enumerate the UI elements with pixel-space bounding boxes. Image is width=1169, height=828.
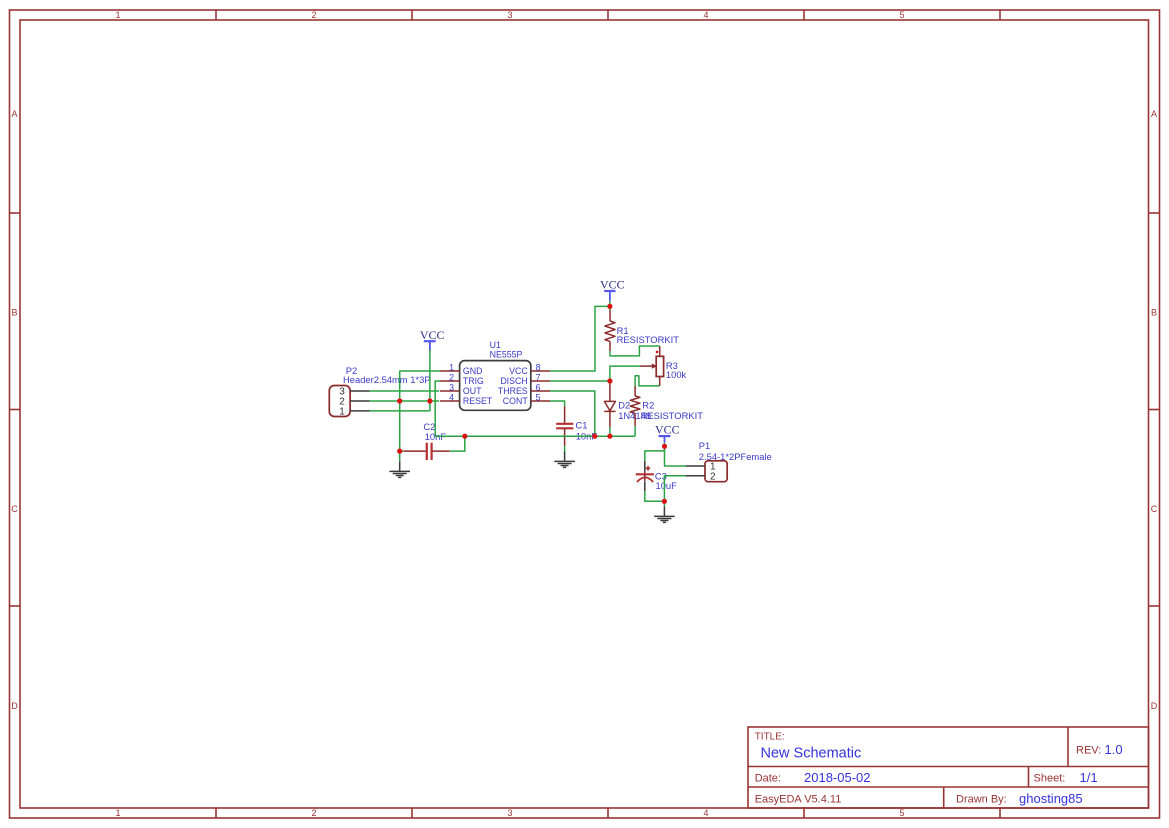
U1 pin 3 OUT (440, 390, 460, 392)
P2 pin 3 (350, 390, 370, 392)
svg-text:4: 4 (703, 10, 708, 20)
U1 pin 6 THRES (531, 390, 550, 392)
svg-text:B: B (11, 308, 17, 318)
connector P2 Header2.54mm 1*3P (329, 365, 430, 417)
svg-text:2: 2 (710, 471, 716, 482)
diode D2 1N4148 (604, 384, 651, 428)
wire P2.1 row (370, 410, 430, 412)
svg-text:RESISTORKIT: RESISTORKIT (617, 334, 680, 345)
svg-text:B: B (1151, 308, 1157, 318)
wire R3 bottom to R2 top (635, 376, 660, 386)
svg-text:4: 4 (449, 392, 454, 402)
junction C3 bottom / P1.2 / ground (662, 499, 667, 504)
wire U1.5 to C1 (550, 401, 565, 406)
svg-text:5: 5 (899, 10, 904, 20)
svg-text:THRES: THRES (498, 386, 528, 396)
svg-text:A: A (1151, 109, 1157, 119)
junction VCC3 (662, 444, 667, 449)
junction DISCH/D2/R3 (607, 378, 612, 383)
svg-text:GND: GND (463, 366, 483, 376)
wire U1.8 to VCC1 (550, 306, 610, 371)
svg-text:VCC: VCC (655, 422, 680, 436)
svg-text:100k: 100k (666, 369, 687, 380)
svg-text:1: 1 (115, 10, 120, 20)
svg-text:D: D (1151, 701, 1158, 711)
ground 2 (below C1) (554, 452, 575, 468)
IC U1 NE555P 555 timer (440, 340, 550, 410)
wire P2.3 to U1.OUT (370, 390, 439, 392)
wire VCC3 to C3 top (645, 446, 665, 461)
U1 pin 8 VCC (531, 370, 550, 372)
svg-text:D2: D2 (618, 399, 630, 410)
wire TRIG vertical B (435, 381, 440, 436)
junction bus / THRES (592, 434, 597, 439)
ground 3 (below C3) (654, 506, 675, 522)
wire VCC3 stem (664, 443, 666, 447)
wire VCC2 vertical A (429, 350, 431, 411)
svg-text:8: 8 (536, 362, 541, 372)
svg-text:Date:: Date: (755, 773, 781, 785)
junction RESET row x VCC A (427, 398, 432, 403)
wire C3 bottom to junction (645, 491, 665, 501)
svg-text:OUT: OUT (463, 386, 482, 396)
resistor R1 RESISTORKIT (605, 310, 679, 351)
svg-text:1: 1 (115, 808, 120, 818)
wire C2 right to bus (450, 436, 465, 451)
wire P1.2 to bottom junction (664, 476, 685, 502)
U1 pin 2 TRIG (440, 380, 460, 382)
wire VCC3 to P1.1 (665, 446, 686, 466)
svg-text:5: 5 (536, 392, 541, 402)
svg-text:3: 3 (507, 808, 512, 818)
svg-text:REV:: REV: (1076, 745, 1101, 757)
connector P1 2.54-1*2PFemale (686, 440, 772, 482)
svg-text:P1: P1 (699, 440, 710, 451)
svg-text:EasyEDA V5.4.11: EasyEDA V5.4.11 (755, 794, 842, 806)
wire D2 bottom to bus (609, 427, 611, 436)
svg-text:VCC: VCC (600, 278, 625, 292)
svg-text:10uF: 10uF (656, 480, 678, 491)
capacitor C3 10uF polarized (636, 461, 677, 491)
svg-text:2: 2 (311, 808, 316, 818)
wire DISCH junction to R3 wiper (610, 366, 640, 381)
resistor R2 RESISTORKIT (630, 386, 703, 426)
svg-text:3: 3 (449, 382, 454, 392)
power VCC symbol 3 (right) (655, 422, 680, 443)
svg-text:TITLE:: TITLE: (755, 732, 785, 743)
wire R2 bottom to bus (634, 426, 636, 437)
junction bus / C2 (462, 434, 467, 439)
title block (748, 727, 1149, 808)
svg-text:1: 1 (339, 407, 345, 418)
wire C2 left to junction (400, 450, 404, 452)
P2 pin 1 (350, 410, 370, 412)
wire U1.6 to bus (550, 391, 595, 436)
svg-text:ghosting85: ghosting85 (1019, 791, 1083, 806)
svg-text:DISCH: DISCH (500, 376, 527, 386)
wire P2.2 to U1.RESET (370, 400, 439, 402)
svg-text:2: 2 (311, 10, 316, 20)
svg-text:1/1: 1/1 (1080, 770, 1098, 785)
svg-text:C: C (1151, 504, 1158, 514)
svg-text:NE555P: NE555P (490, 350, 523, 360)
U1 pin 7 DISCH (531, 380, 550, 382)
junction bus / D2 (607, 434, 612, 439)
svg-text:7: 7 (536, 372, 541, 382)
wire C1 bottom to ground (564, 446, 566, 451)
wire U1.7 to junction (550, 380, 610, 382)
U1 pin 5 CONT (531, 400, 550, 402)
wire bottom junction to ground 3 (663, 501, 665, 506)
wire VCC1 stem to R1 (609, 301, 611, 310)
wire bottom bus (435, 435, 635, 437)
P1 pin 1 (686, 465, 705, 467)
capacitor C2 10nF (403, 421, 449, 460)
wire D2 top stub (609, 381, 611, 384)
svg-text:2: 2 (449, 372, 454, 382)
junction C2 left / ground (397, 449, 402, 454)
svg-text:R2: R2 (642, 399, 654, 410)
svg-text:5: 5 (899, 808, 904, 818)
U1 pin 1 GND (440, 370, 460, 372)
svg-text:3: 3 (507, 10, 512, 20)
svg-text:New Schematic: New Schematic (761, 746, 862, 762)
svg-text:D: D (11, 701, 18, 711)
svg-text:A: A (11, 109, 17, 119)
svg-text:6: 6 (536, 382, 541, 392)
svg-text:Drawn By:: Drawn By: (956, 794, 1007, 806)
U1 pin 4 RESET (440, 400, 460, 402)
svg-text:C: C (11, 504, 18, 514)
wire R1 bottom to R3 top (610, 346, 660, 356)
wire GND net vertical (400, 371, 440, 461)
svg-text:2018-05-02: 2018-05-02 (804, 770, 871, 785)
svg-text:2.54-1*2PFemale: 2.54-1*2PFemale (699, 451, 772, 462)
svg-text:TRIG: TRIG (463, 376, 484, 386)
svg-text:RESET: RESET (463, 396, 493, 406)
svg-text:VCC: VCC (420, 328, 445, 342)
svg-text:VCC: VCC (509, 366, 528, 376)
power VCC symbol 2 (left) (420, 328, 445, 351)
potentiometer R3 100k (640, 346, 687, 386)
junction RESET row x GND net (397, 398, 402, 403)
svg-text:4: 4 (703, 808, 708, 818)
svg-text:Header2.54mm 1*3P: Header2.54mm 1*3P (343, 374, 431, 385)
svg-text:1: 1 (449, 362, 454, 372)
svg-text:C1: C1 (576, 420, 588, 431)
junction VCC1/R1 (607, 304, 612, 309)
svg-text:1N4148: 1N4148 (618, 410, 651, 421)
P2 pin 2 (350, 400, 370, 402)
svg-text:Sheet:: Sheet: (1034, 773, 1066, 785)
power VCC symbol 1 (top) (600, 278, 625, 301)
svg-text:CONT: CONT (503, 396, 529, 406)
capacitor C1 10nF (556, 406, 597, 446)
P1 pin 2 (686, 475, 705, 477)
ground 1 (below P2 net) (389, 461, 410, 477)
svg-text:1.0: 1.0 (1105, 742, 1123, 757)
